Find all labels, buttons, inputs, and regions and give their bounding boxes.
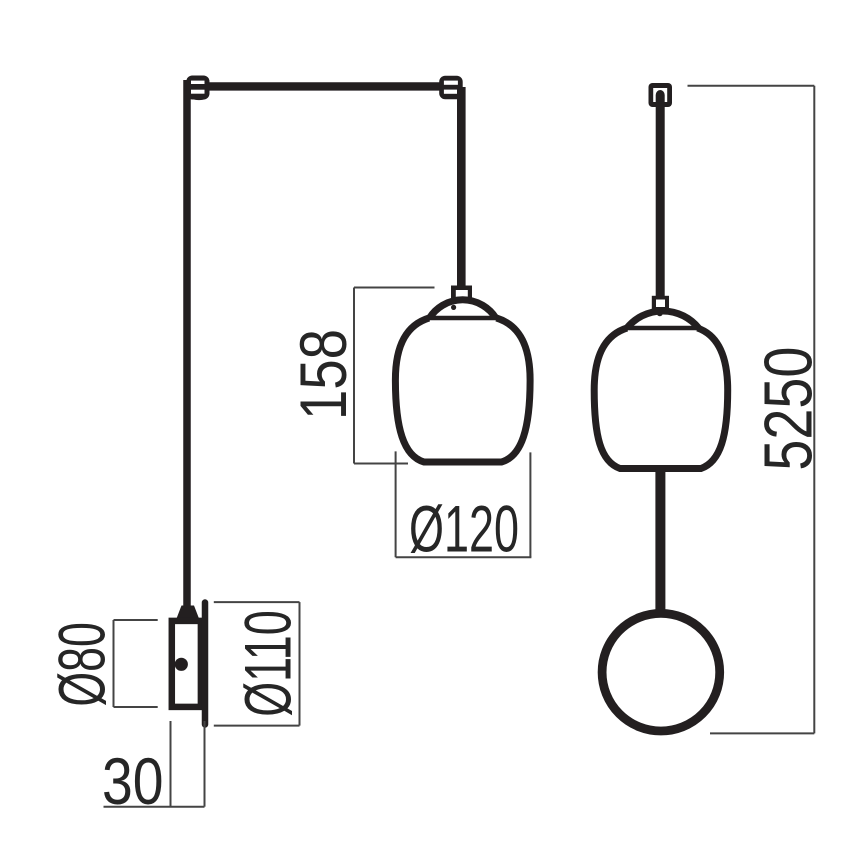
rim line of right shade bbox=[626, 326, 701, 331]
rim line of left shade bbox=[428, 316, 497, 321]
dim D120 bottom line bbox=[396, 556, 532, 558]
nub on right dome bbox=[657, 310, 663, 316]
svg-text:Ø110: Ø110 bbox=[230, 610, 304, 717]
svg-text:Ø80: Ø80 bbox=[45, 622, 119, 707]
dim D120 extension right bbox=[529, 452, 531, 557]
socket of left shade bbox=[451, 286, 472, 303]
cable: right pendant cable bbox=[656, 105, 665, 298]
clamp left bbox=[186, 76, 209, 101]
dome of right shade bbox=[627, 311, 699, 328]
socket of right shade bbox=[652, 296, 669, 311]
dim 5250 bracket bbox=[813, 86, 815, 734]
stem rod to ball bbox=[655, 468, 665, 612]
dim D120 extension left bbox=[395, 451, 397, 557]
clamp right bbox=[439, 76, 463, 100]
top connector bbox=[649, 83, 673, 107]
wall plate bbox=[202, 603, 209, 725]
dim D80 bracket bbox=[113, 620, 115, 707]
dim D110 bracket bbox=[214, 601, 300, 603]
svg-text:Ø120: Ø120 bbox=[409, 491, 519, 565]
nub on left dome bbox=[451, 305, 456, 310]
dome of left shade bbox=[430, 300, 496, 318]
svg-text:158: 158 bbox=[286, 329, 360, 420]
cable: pendant drop cable bbox=[457, 87, 466, 290]
glass body of left shade bbox=[395, 318, 530, 462]
wall bracket flare bbox=[177, 606, 200, 619]
wall bracket box bbox=[172, 621, 201, 707]
wire: horizontal arm rod bbox=[185, 82, 456, 90]
svg-text:30: 30 bbox=[102, 744, 164, 818]
wire: vertical wall rod bbox=[183, 80, 191, 606]
ball diffuser bbox=[602, 613, 720, 731]
dim 30 extension lines bbox=[170, 721, 172, 807]
dim 30 bottom line bbox=[104, 806, 205, 808]
screw dot bbox=[175, 658, 188, 671]
svg-text:5250: 5250 bbox=[751, 347, 827, 471]
glass body of right shade bbox=[594, 328, 728, 469]
dim 158 bracket bbox=[353, 288, 355, 464]
